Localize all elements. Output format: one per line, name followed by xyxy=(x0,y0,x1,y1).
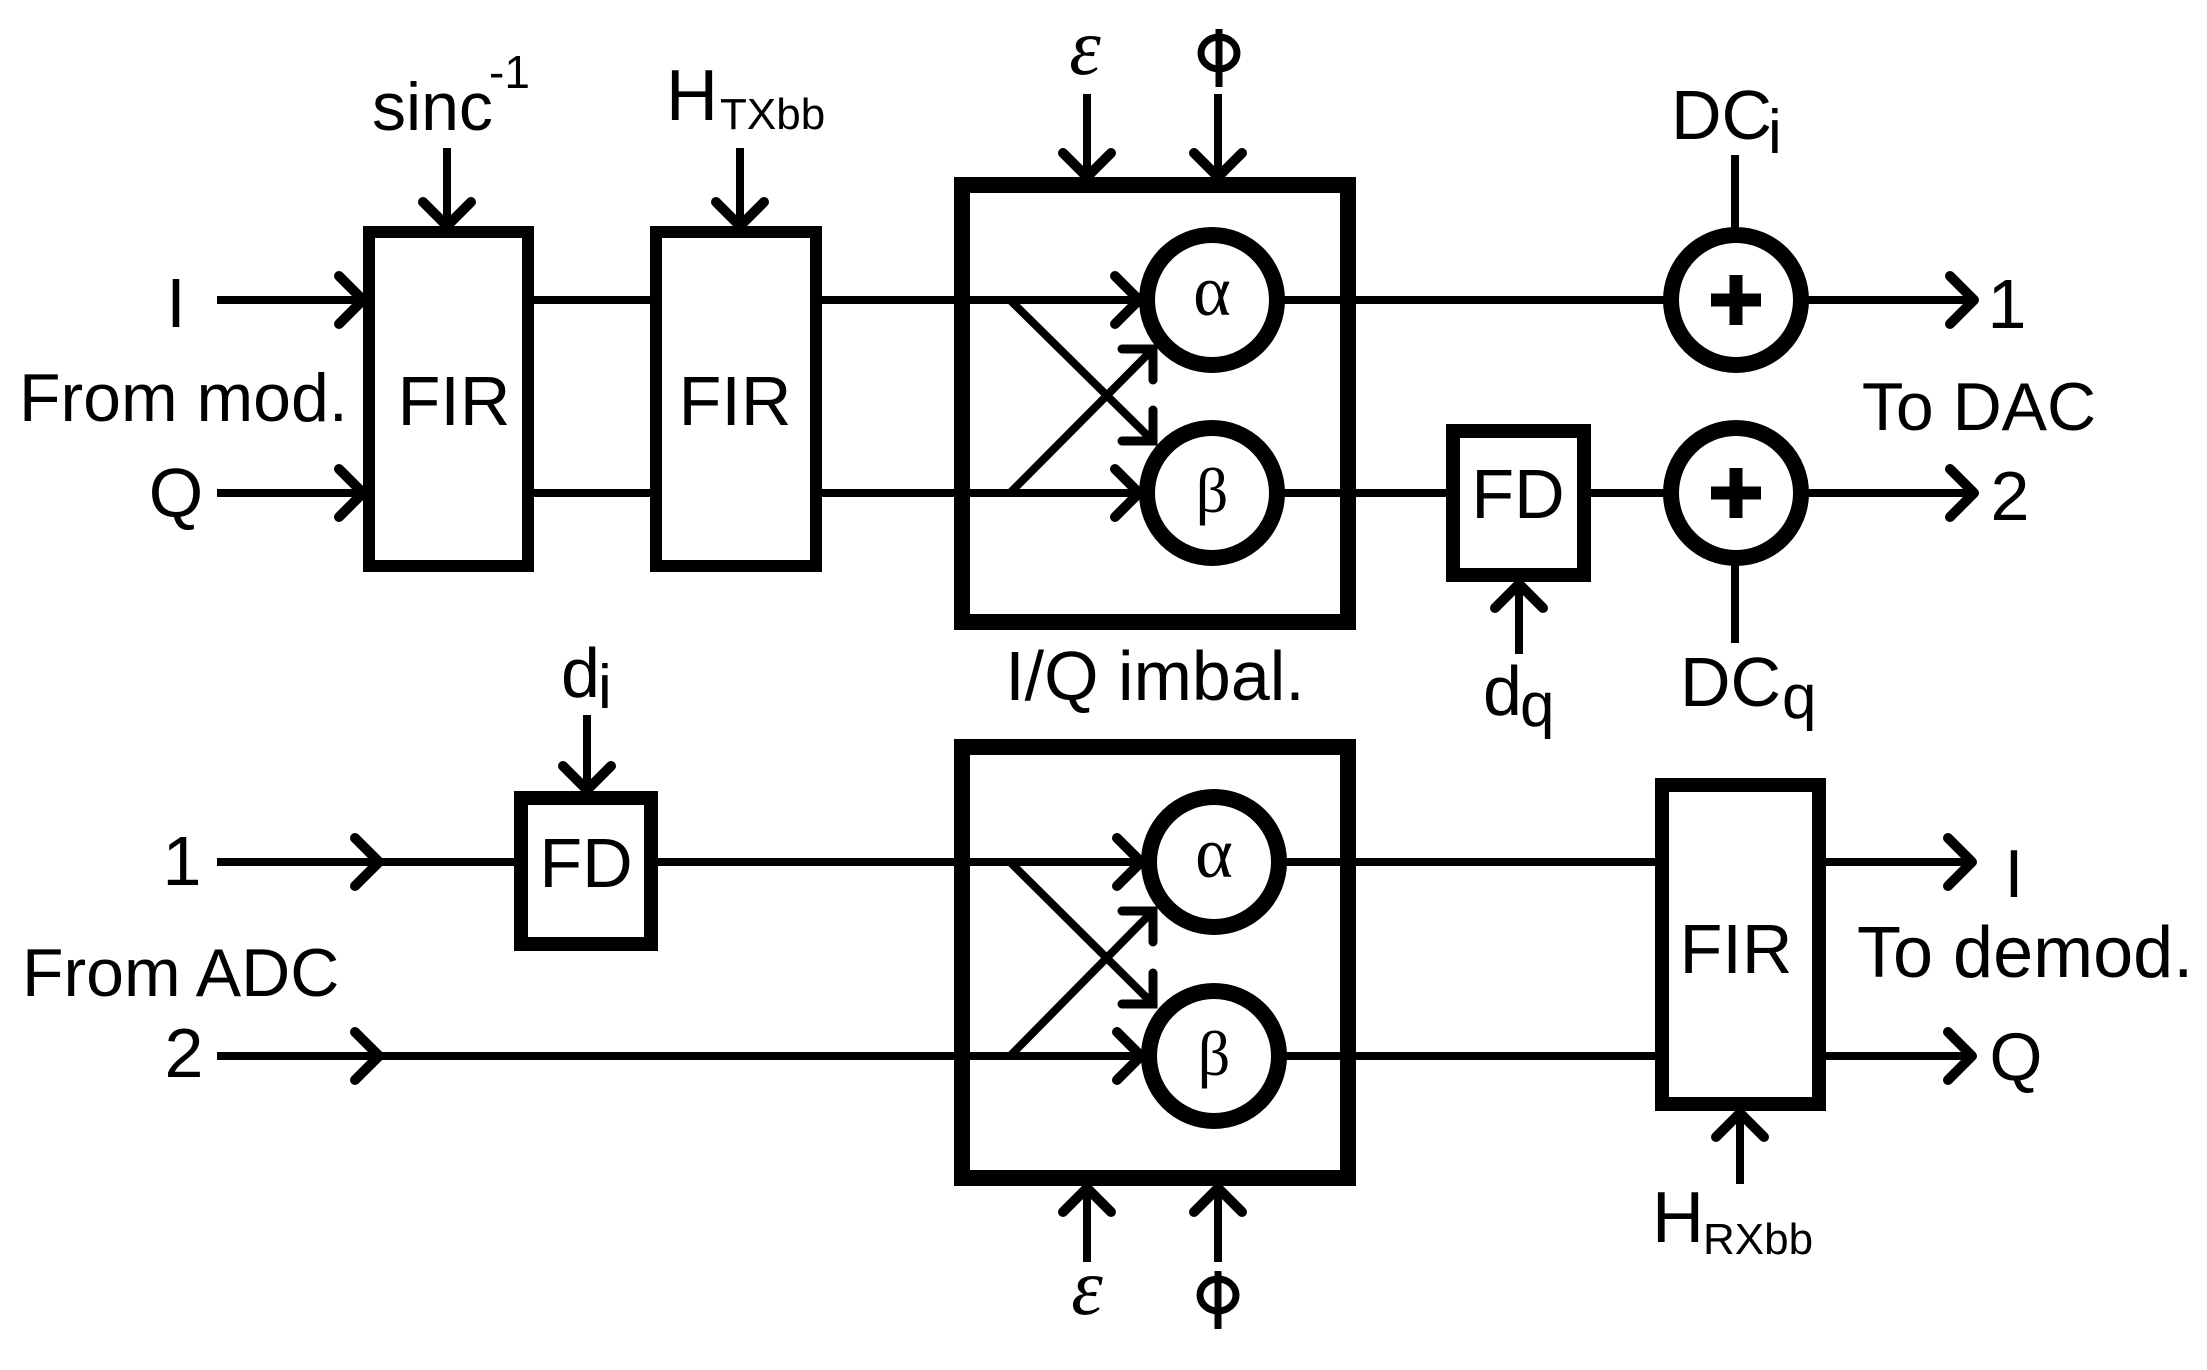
svg-text:FD: FD xyxy=(539,824,632,902)
svg-text:H: H xyxy=(666,56,718,136)
svg-text:d: d xyxy=(1483,652,1522,730)
svg-text:2: 2 xyxy=(1991,457,2030,535)
svg-text:ε: ε xyxy=(1071,1244,1103,1332)
svg-text:ε: ε xyxy=(1069,4,1101,92)
svg-text:I/Q imbal.: I/Q imbal. xyxy=(1005,637,1305,715)
svg-text:-1: -1 xyxy=(489,46,530,98)
svg-text:Q: Q xyxy=(1990,1019,2043,1095)
svg-text:TXbb: TXbb xyxy=(720,90,825,139)
svg-text:β: β xyxy=(1196,455,1229,526)
svg-text:I: I xyxy=(166,264,185,342)
svg-text:d: d xyxy=(561,634,600,712)
svg-text:β: β xyxy=(1198,1018,1231,1089)
svg-text:i: i xyxy=(1768,98,1782,167)
svg-text:α: α xyxy=(1195,813,1233,893)
svg-text:DC: DC xyxy=(1680,643,1781,721)
svg-text:FD: FD xyxy=(1471,455,1564,533)
svg-text:sinc: sinc xyxy=(372,69,493,145)
svg-text:FIR: FIR xyxy=(679,362,792,440)
svg-text:FIR: FIR xyxy=(398,362,511,440)
svg-text:1: 1 xyxy=(163,822,202,900)
svg-text:H: H xyxy=(1652,1178,1704,1258)
svg-text:1: 1 xyxy=(1988,265,2027,343)
svg-text:To demod.: To demod. xyxy=(1857,913,2193,993)
svg-text:α: α xyxy=(1193,251,1231,331)
svg-text:q: q xyxy=(1520,671,1554,740)
svg-text:DC: DC xyxy=(1671,76,1772,154)
svg-text:RXbb: RXbb xyxy=(1703,1215,1813,1264)
svg-text:From ADC: From ADC xyxy=(22,935,339,1011)
svg-text:i: i xyxy=(598,653,612,722)
svg-text:From mod.: From mod. xyxy=(19,360,348,436)
svg-text:I: I xyxy=(2005,836,2024,912)
svg-text:FIR: FIR xyxy=(1680,910,1793,988)
svg-text:Q: Q xyxy=(149,454,203,532)
svg-text:q: q xyxy=(1782,663,1816,732)
svg-text:2: 2 xyxy=(165,1014,204,1092)
svg-text:To DAC: To DAC xyxy=(1862,369,2096,445)
